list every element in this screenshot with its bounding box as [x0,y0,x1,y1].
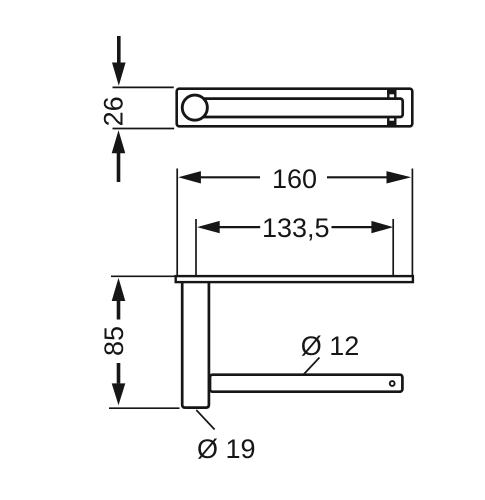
svg-text:160: 160 [272,164,317,194]
leader line for Ø19 [196,410,214,430]
dim 85 top extension line [111,275,177,277]
svg-text:133,5: 133,5 [262,213,330,243]
dim 160 right extension line [411,169,413,276]
roller bar (slot) [195,99,403,117]
dim 26 bottom arrow (up) [112,130,126,182]
dim 85 bottom arrow (down) [112,363,126,405]
arm (lower horizontal bar) [210,375,402,392]
post circle (seen from above) [182,95,207,120]
arm hole [390,381,395,386]
svg-text:26: 26 [98,96,128,126]
dim 160 left extension line [176,169,178,276]
dim 160 line + arrows [199,176,389,178]
wall-plate strip (right end, seen from above) [387,90,396,125]
wall plate (horizontal bar) [176,276,413,282]
dim 26 top arrow (down) [112,36,126,86]
leader line for Ø12 [304,358,320,375]
top view outer housing rect [177,89,413,127]
dim 133,5 right extension line [392,219,394,276]
svg-text:Ø 12: Ø 12 [301,331,360,361]
dim 85 top arrow (up) [112,278,126,320]
dim 26 bottom extension line [113,128,175,130]
dim 133,5 left extension line [195,219,197,276]
post (vertical) [182,281,209,408]
svg-text:Ø 19: Ø 19 [197,434,256,464]
dim 26 top extension line [113,86,174,88]
dim 85 bottom extension line [109,407,180,409]
dim 133,5 line + arrows [218,226,373,228]
svg-text:85: 85 [99,326,129,356]
